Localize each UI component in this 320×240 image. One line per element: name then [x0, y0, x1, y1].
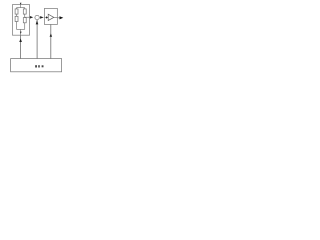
wire compensation line to summing node [36, 20, 38, 59]
arrowhead on sensor supply line [19, 38, 22, 42]
wire bottom bar [17, 28, 25, 30]
amplifier box (element 2) [44, 8, 57, 24]
wire amplifier output [54, 16, 58, 18]
arrowhead summing node to amplifier box [40, 16, 44, 19]
sensor bridge box (element 1) [13, 5, 30, 36]
supply arrow label at top of sensor box [20, 3, 22, 5]
wire right branch [24, 8, 26, 30]
wire top bar [17, 7, 25, 9]
wire left branch [16, 8, 18, 30]
label glyph 1 in evaluation box [35, 65, 37, 67]
arrowhead into summing node [30, 16, 33, 19]
wire bottom stub [20, 29, 22, 35]
resistor R4 (lower right) [23, 18, 26, 23]
resistor R1 (upper left) [15, 9, 18, 14]
evaluation circuit box (element 3) [11, 59, 62, 72]
arrowhead at amplifier input [46, 16, 48, 18]
arrowhead on compensation line [36, 20, 39, 24]
label glyph 3 in evaluation box [42, 65, 44, 67]
resistor R3 (lower left) [15, 16, 18, 21]
label glyph 2 in evaluation box [38, 65, 40, 67]
wire bridge output tap [25, 16, 30, 18]
summing node circle [35, 15, 39, 19]
wire supply line to sensor box [20, 35, 22, 58]
resistor R2 (upper right) [23, 9, 26, 14]
wire output of amp box [57, 17, 59, 19]
wire into amplifier [44, 16, 46, 18]
arrowhead on gain control line [50, 33, 53, 36]
wire sensor box to summing node [29, 16, 32, 18]
op-amp triangle [48, 14, 54, 20]
arrowhead output [60, 16, 64, 19]
wire top stub [20, 5, 22, 8]
wire gain control line to amplifier [50, 24, 52, 58]
ground arrow inside sensor box [20, 32, 22, 34]
